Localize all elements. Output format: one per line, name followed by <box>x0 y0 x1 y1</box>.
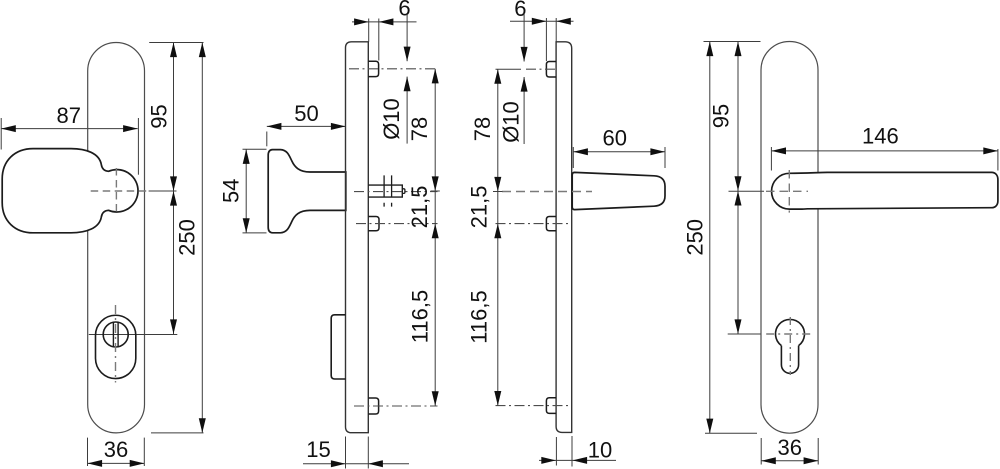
dimension 15 right extension <box>367 437 369 469</box>
svg-text:95: 95 <box>709 104 734 128</box>
spindle <box>368 185 402 197</box>
dimension 146 left extension <box>770 147 772 171</box>
bottom extension line for 250 <box>151 432 204 434</box>
dimension 54 top arrow <box>243 149 250 164</box>
svg-text:78: 78 <box>470 117 495 141</box>
arrow up at knob centre on line A <box>170 191 177 206</box>
svg-text:21,5: 21,5 <box>467 185 492 228</box>
spindle tip step <box>402 189 405 194</box>
arrow up at top screw centre fig3 <box>494 69 501 84</box>
cylinder bump on front face <box>331 315 345 379</box>
spindle square edge line right <box>391 175 393 206</box>
svg-text:250: 250 <box>175 219 200 256</box>
dimension 146 line <box>771 150 998 152</box>
dimension 54 bottom extension <box>243 232 267 234</box>
lever grip side view <box>572 172 665 209</box>
svg-text:54: 54 <box>219 179 244 203</box>
dimension 6 right arrow fig2 <box>379 18 394 25</box>
arrow up at top on line A <box>170 43 177 58</box>
dimension 10 line <box>539 459 616 461</box>
dimension 15 line <box>303 463 409 465</box>
dimension 36 left extension fig4 <box>760 438 762 465</box>
svg-text:78: 78 <box>407 117 432 141</box>
lever centre extension line fig4 <box>729 190 765 192</box>
dimension 50 left arrow <box>267 123 282 130</box>
left dimension line fig3 (78 / 21,5 / 116,5) <box>497 69 499 405</box>
arrow up at lug centre fig2 <box>432 224 439 239</box>
diameter 10 bottom arrow fig2 <box>404 77 411 92</box>
cylinder escutcheon oval <box>96 315 136 378</box>
keyhole horizontal dash-dot centreline <box>766 333 814 335</box>
dimension 36 line <box>88 462 145 464</box>
knob front view <box>2 149 138 233</box>
cylinder circle <box>103 322 128 347</box>
arrow up at top on line B <box>199 43 206 58</box>
dimension 6 plate-face extension fig3 <box>555 18 557 42</box>
svg-text:60: 60 <box>602 126 626 151</box>
dimension 54 bottom arrow <box>243 218 250 233</box>
dimension 146 right arrow <box>983 147 998 154</box>
dimension 36 left arrow fig4 <box>761 457 776 464</box>
knob centre extension to line A <box>149 190 177 192</box>
knob vertical dashed centreline <box>115 168 117 216</box>
plate side outline fig3 <box>556 42 572 433</box>
bottom screw centreline <box>354 405 438 407</box>
arrow down at bottom on 250 line fig4 <box>706 419 713 434</box>
diameter 10 dimension shaft lower fig2 <box>406 77 408 144</box>
cylinder centre extension line fig4 <box>728 333 761 335</box>
svg-text:87: 87 <box>57 103 81 128</box>
dimension 6 left arrow fig3 <box>532 18 547 25</box>
arrow down at bottom screw centre fig2 <box>432 391 439 406</box>
dimension 95 line fig4 <box>737 42 739 335</box>
dimension 146 right extension <box>997 149 999 171</box>
svg-text:146: 146 <box>862 124 899 149</box>
tick at lever centre on dimension line fig3 <box>493 191 503 193</box>
dimension 87 left extension line <box>0 118 2 150</box>
dimension 60 left arrow <box>573 148 588 155</box>
svg-text:36: 36 <box>104 437 128 462</box>
spindle centreline <box>354 191 438 193</box>
diameter 10 bottom arrow fig3 <box>521 77 528 92</box>
arrow down at bottom on line B <box>199 418 206 433</box>
arrow down at knob centre on line A <box>170 176 177 191</box>
svg-text:36: 36 <box>777 435 801 460</box>
tick at spindle centre on dimension line fig2 <box>431 190 440 192</box>
lever vertical dashed centreline <box>788 170 790 213</box>
dimension 36 left arrow <box>88 460 103 467</box>
svg-text:50: 50 <box>294 101 318 126</box>
arrow down at lever centre fig4 <box>735 176 742 191</box>
bottom extension line fig4 <box>705 432 757 434</box>
plate side outline fig2 <box>346 42 369 433</box>
arrow up at top screw centre fig2 <box>432 69 439 84</box>
keyhole circle fig4 <box>776 319 805 345</box>
dimension 250 line fig4 <box>709 42 711 434</box>
cylinder slot right line <box>117 323 119 347</box>
top extension line <box>149 42 203 44</box>
dimension 36 line fig4 <box>761 460 818 462</box>
diameter 10 dimension shaft lower fig3 <box>523 77 525 144</box>
arrow down at spindle centre fig2 <box>432 176 439 191</box>
dimension line B (250 overall) <box>201 43 203 433</box>
dimension 87 right arrow <box>123 125 138 132</box>
lever handle front view <box>772 172 998 209</box>
arrow up at top on 250 line fig4 <box>706 42 713 57</box>
cylinder slot left line <box>112 323 114 347</box>
diameter 10 dimension shaft upper fig2 <box>406 14 408 61</box>
arrow down at cylinder centre on line A <box>170 319 177 334</box>
svg-text:Ø10: Ø10 <box>499 101 524 143</box>
knob side view <box>268 150 346 233</box>
diameter 10 top arrow fig2 <box>404 47 411 62</box>
keyhole vertical dash-dot centreline <box>789 317 791 375</box>
dimension 10 left extension <box>555 437 557 466</box>
lower fixing lug fig3 <box>546 217 556 231</box>
svg-text:6: 6 <box>514 0 526 21</box>
dimension 10 left arrow <box>541 457 556 464</box>
lug centreline fig3 <box>496 223 571 225</box>
bottom screw fig2 <box>368 398 378 414</box>
svg-text:95: 95 <box>146 104 171 128</box>
dimension 54 top extension <box>243 148 267 150</box>
dimension 50 right arrow <box>331 123 346 130</box>
dimension 10 right extension <box>571 436 573 467</box>
spindle square edge line left <box>383 175 385 206</box>
dimension 36 right extension fig4 <box>817 438 819 465</box>
dimension line A (95 / pz segment) <box>173 43 175 335</box>
dimension 36 right arrow <box>130 460 145 467</box>
plate outline fig1 <box>88 43 145 433</box>
plate outline fig4 <box>761 41 818 433</box>
dimension 15 left extension <box>345 437 347 469</box>
bottom screw fig3 <box>546 398 556 414</box>
dimension 36 left extension <box>87 438 89 466</box>
knob horizontal dashed centreline <box>91 190 148 192</box>
dimension 60 right extension <box>664 147 666 168</box>
svg-text:10: 10 <box>588 438 612 463</box>
svg-text:6: 6 <box>398 0 410 21</box>
arrow down at lever centre fig3 <box>494 177 501 192</box>
cylinder vertical dashed centreline <box>115 305 117 383</box>
top screw centreline fig3 <box>526 68 558 70</box>
lever axis dashed centreline fig3 <box>502 191 592 193</box>
dimension 87 right extension line <box>137 118 139 175</box>
top screw centreline <box>349 68 438 70</box>
svg-text:116,5: 116,5 <box>408 290 433 343</box>
dimension 15 right arrow <box>368 460 383 467</box>
dimension 6 left arrow fig2 <box>354 18 369 25</box>
dimension 6 screw-tip extension fig3 <box>545 18 547 61</box>
arrow down at bottom screw centre fig3 <box>494 391 501 406</box>
cylinder centre horizontal line <box>89 334 178 336</box>
svg-text:15: 15 <box>306 437 330 462</box>
diameter 10 dimension shaft upper fig3 <box>523 13 525 62</box>
arrow up at lever centre fig4 <box>735 191 742 206</box>
dimension 6 right arrow fig3 <box>556 18 571 25</box>
dimension 87 left arrow <box>1 125 16 132</box>
arrow down at cylinder centre fig4 <box>735 319 742 334</box>
lever horizontal dashed centreline <box>766 190 808 192</box>
lower fixing lug fig2 <box>368 217 379 231</box>
svg-text:Ø10: Ø10 <box>379 98 404 140</box>
dimension 50 left extension line <box>266 132 268 147</box>
top screw fig3 <box>546 62 556 78</box>
svg-text:21,5: 21,5 <box>407 185 432 228</box>
lug centreline <box>356 223 438 225</box>
dimension 54 line <box>245 149 247 233</box>
dimension 36 right extension <box>143 438 145 466</box>
dimension 6 plate-face extension fig2 <box>368 19 370 42</box>
top screw centreline extension fig3 <box>496 68 522 70</box>
dimension 60 right arrow <box>650 148 665 155</box>
svg-text:250: 250 <box>682 219 707 256</box>
dimension 87 line <box>1 128 138 130</box>
top extension line fig4 <box>704 41 761 43</box>
dimension 10 right arrow <box>573 457 588 464</box>
bottom screw centreline fig3 <box>496 405 571 407</box>
dimension 146 left arrow <box>771 147 786 154</box>
dimension 60 line <box>573 151 665 153</box>
top screw fig2 <box>368 61 378 76</box>
dimension 15 left arrow <box>331 460 346 467</box>
right dimension line fig2 (78 / 21,5 / 116,5) <box>434 69 436 406</box>
dimension 50 line <box>267 125 346 127</box>
dimension 60 left extension <box>572 147 574 168</box>
diameter 10 top arrow fig3 <box>521 47 528 62</box>
dimension 6 screw-tip extension fig2 <box>378 19 380 61</box>
svg-text:116,5: 116,5 <box>467 290 492 343</box>
dimension 6 line fig3 <box>510 20 574 22</box>
keyhole keyway fig4 <box>781 346 798 374</box>
dimension 6 line fig2 <box>352 21 417 23</box>
arrow up at lug centre fig3 <box>494 224 501 239</box>
arrow up at top on 95 line fig4 <box>735 42 742 57</box>
dimension 36 right arrow fig4 <box>804 457 819 464</box>
